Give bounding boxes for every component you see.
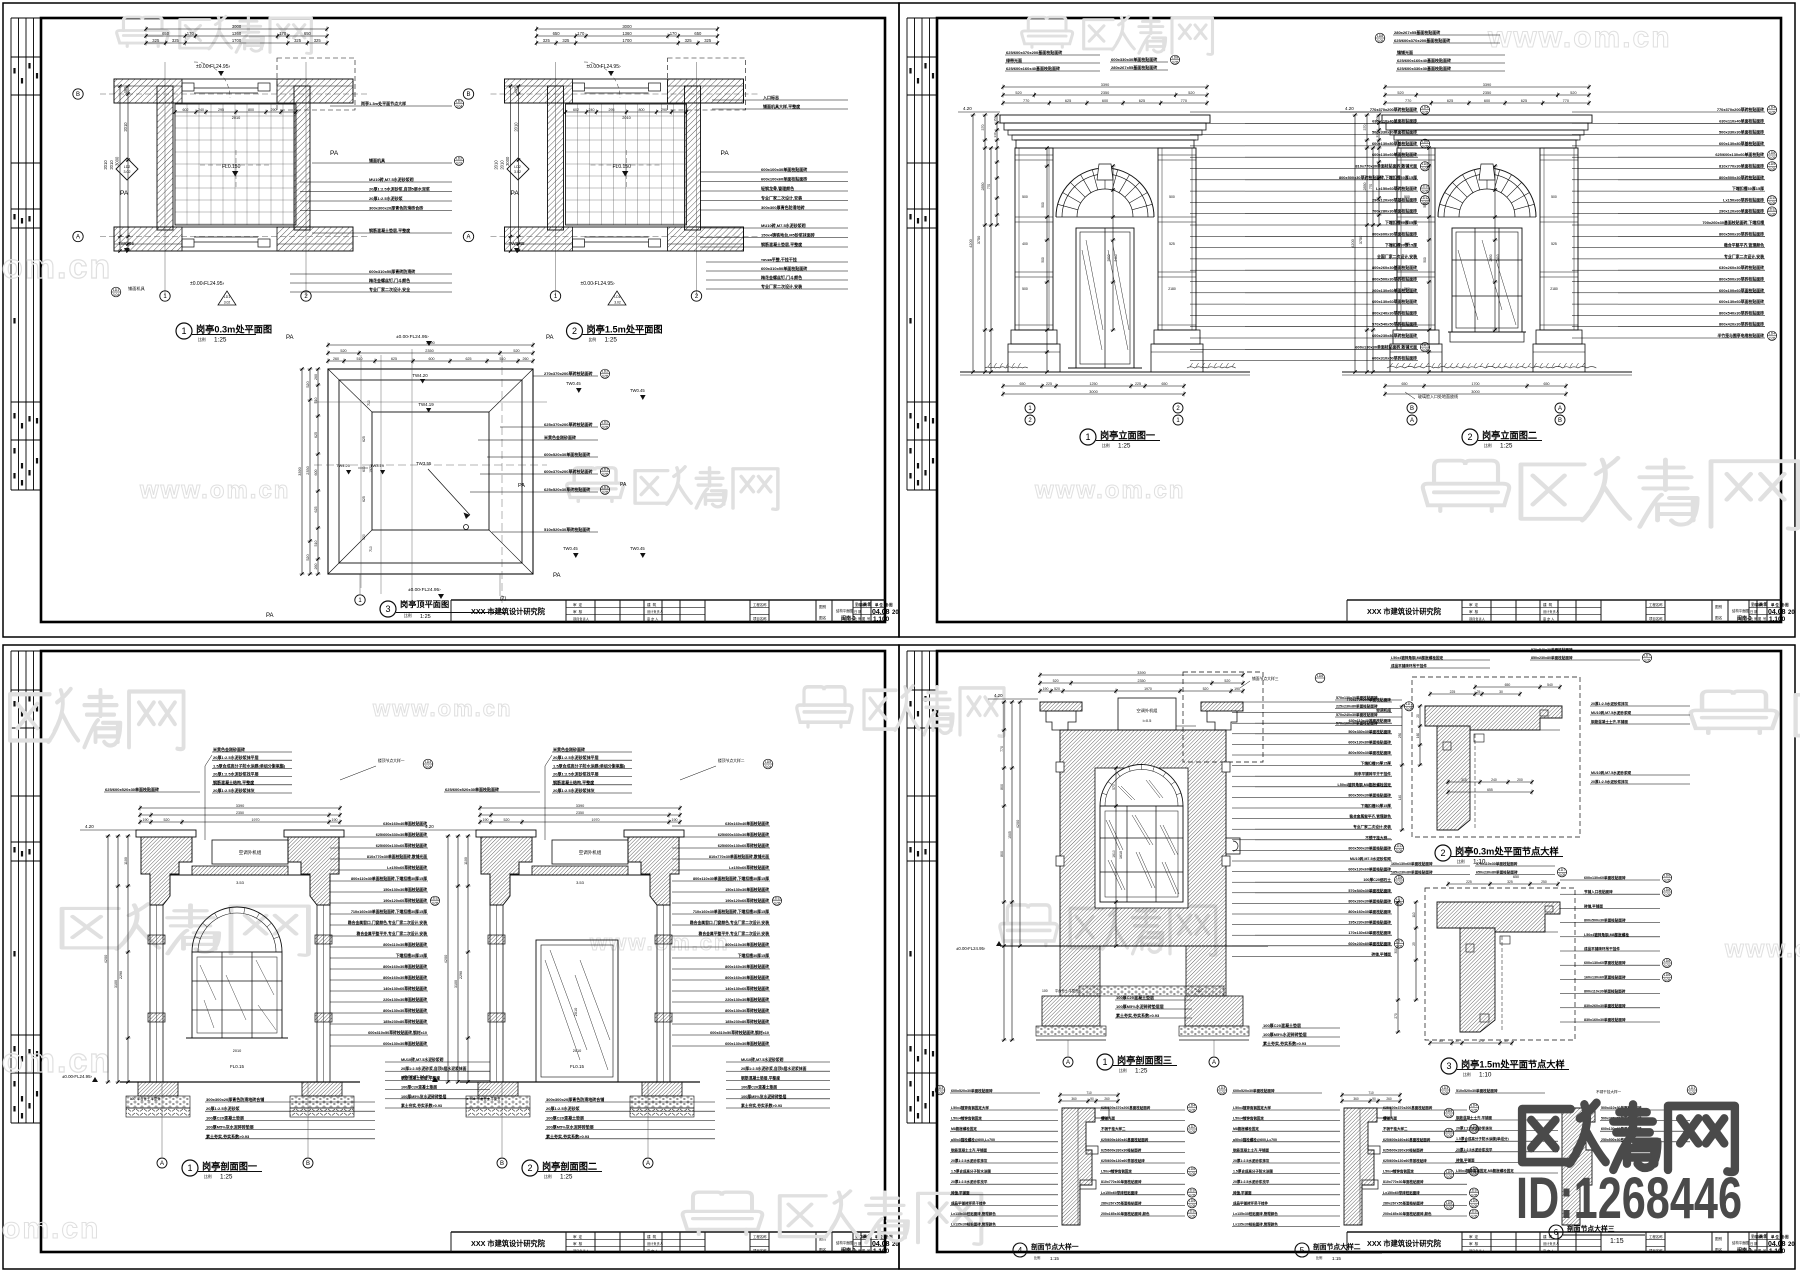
svg-text:04.08: 04.08 (872, 609, 890, 616)
svg-text:LD2: LD2 (456, 100, 462, 104)
svg-text:审 定: 审 定 (1469, 1234, 1479, 1239)
arch springline (1438, 216, 1536, 218)
axis line B (100, 93, 370, 95)
svg-text:600x310x50单面枝贴面砖: 600x310x50单面枝贴面砖 (761, 265, 807, 271)
svg-text:170: 170 (187, 31, 195, 36)
svg-text:710: 710 (367, 400, 371, 406)
svg-text:20厚1:2.5水泥砂浆: 20厚1:2.5水泥砂浆 (369, 195, 404, 201)
svg-text:190x120x60草砖枝贴面砖: 190x120x60草砖枝贴面砖 (725, 898, 769, 903)
svg-text:3.02: 3.02 (124, 170, 131, 174)
svg-text:岗亭平铺砖平齐干挂件: 岗亭平铺砖平齐干挂件 (1354, 771, 1391, 776)
svg-text:520: 520 (1203, 687, 1209, 691)
svg-text:空调外机组: 空调外机组 (239, 849, 262, 856)
svg-text:项目名称: 项目名称 (753, 1248, 767, 1253)
svg-text:20厚1:2.5水泥砂浆找平: 20厚1:2.5水泥砂浆找平 (1233, 1179, 1270, 1184)
svg-text:700x280x30单面枝贴面砖: 700x280x30单面枝贴面砖 (1372, 209, 1417, 214)
svg-text:TW0.45: TW0.45 (509, 241, 526, 246)
svg-text:砖缝,平铺面: 砖缝,平铺面 (951, 1190, 970, 1195)
svg-text:Lx150x60草砖枝贴面砖: Lx150x60草砖枝贴面砖 (387, 865, 427, 870)
svg-text:1: 1 (1102, 1057, 1107, 1067)
svg-text:om.cn: om.cn (2, 1042, 112, 1080)
section2 right notes lower (726, 1057, 830, 1108)
svg-text:B: B (500, 1161, 504, 1167)
svg-text:LD2: LD2 (1189, 1125, 1195, 1129)
svg-text:800x500x30单面枝贴面砖: 800x500x30单面枝贴面砖 (1348, 845, 1391, 850)
watermark sofa right mid (1423, 461, 1509, 511)
svg-text:260x130x60单面枝贴面砖: 260x130x60单面枝贴面砖 (1372, 288, 1417, 293)
door head line (585, 87, 649, 89)
svg-text:85: 85 (1439, 1039, 1443, 1043)
roof top dim chain 3 (326, 343, 534, 348)
svg-text:LD3: LD3 (1442, 1086, 1448, 1090)
svg-text:审 定: 审 定 (573, 1234, 583, 1239)
svg-text:100 平台夯土,平整夯: 100 平台夯土,平整夯 (470, 1096, 501, 1101)
wd right notes (1382, 1103, 1479, 1218)
svg-text:3000: 3000 (115, 156, 120, 166)
axis bubble section (157, 1158, 167, 1168)
pilaster base cap (1536, 330, 1582, 344)
wd3 left refcircles (1444, 1108, 1454, 1118)
svg-text:节铺入口枝贴面砖: 节铺入口枝贴面砖 (1584, 889, 1613, 894)
svg-text:190: 190 (332, 818, 338, 822)
arch fanlight (1438, 168, 1536, 217)
svg-text:2010: 2010 (574, 1008, 578, 1016)
svg-text:2010: 2010 (622, 116, 630, 120)
gravel base right (290, 1096, 354, 1108)
svg-text:审 核: 审 核 (573, 1241, 583, 1246)
svg-text:M8膨胀螺栓固定: M8膨胀螺栓固定 (1233, 1126, 1259, 1131)
svg-text:下端扣槽30厚15厚: 下端扣槽30厚15厚 (1361, 761, 1392, 766)
wall left pier hatched (157, 86, 173, 230)
svg-text:600x310x50草砖枝贴面砖,钢材x10: 600x310x50草砖枝贴面砖,钢材x10 (710, 1030, 769, 1035)
svg-text:3.05: 3.05 (602, 473, 609, 477)
leader from top notes (545, 755, 552, 766)
detail2 left notes (1335, 695, 1414, 726)
sec3 below-ground hatch left (1060, 946, 1100, 996)
section top dim 1b (478, 813, 681, 818)
detail2 inner fixtures (1474, 734, 1484, 742)
wall band bottom with hatch (114, 227, 353, 251)
svg-text:LD2: LD2 (514, 165, 521, 169)
svg-text:2010: 2010 (573, 1049, 581, 1053)
arch springline (1056, 216, 1154, 218)
figure label 岗亭立面图一 (1080, 429, 1096, 445)
svg-text:比例: 比例 (204, 1174, 212, 1179)
svg-text:LD2: LD2 (602, 421, 608, 425)
svg-text:325: 325 (685, 38, 693, 43)
svg-text:600x130x30单面枝贴面砖,散铺光面: 600x130x30单面枝贴面砖,散铺光面 (1355, 344, 1417, 349)
dashed detail boundary (668, 58, 746, 110)
svg-text:4.20: 4.20 (1345, 106, 1354, 111)
svg-text:稳合金属平整平齐,专业厂家二次设计,安装: 稳合金属平整平齐,专业厂家二次设计,安装 (357, 931, 428, 936)
watermark sofa+logo sheet2 top (1022, 17, 1073, 47)
svg-text:LD2: LD2 (602, 370, 608, 374)
svg-text:520: 520 (164, 818, 170, 822)
svg-text:A: A (646, 1161, 650, 1167)
svg-text:比例: 比例 (1463, 1072, 1471, 1077)
svg-text:800: 800 (639, 108, 645, 112)
svg-text:150: 150 (993, 116, 997, 121)
svg-text:LD1: LD1 (224, 295, 230, 299)
svg-text:4200: 4200 (444, 955, 448, 963)
svg-text:800x500x30单面枝贴面砖: 800x500x30单面枝贴面砖 (1348, 750, 1391, 755)
section left dims inner (466, 834, 471, 1083)
roof left dim chain 2 (308, 367, 313, 575)
svg-text:25: 25 (1412, 942, 1416, 946)
svg-text:图名: 图名 (1715, 615, 1723, 620)
svg-text:成品平铺砖环吊干挂件: 成品平铺砖环吊干挂件 (951, 1200, 986, 1205)
svg-text:3.05: 3.05 (1769, 156, 1776, 160)
svg-text:1970: 1970 (252, 818, 260, 822)
svg-text:20厚1:2.5水泥砂浆抹灰: 20厚1:2.5水泥砂浆抹灰 (1233, 1158, 1270, 1163)
svg-text:185x230x80草砖枝贴面砖: 185x230x80草砖枝贴面砖 (383, 1019, 427, 1024)
svg-text:岗亭0.3m处平面节点大样: 岗亭0.3m处平面节点大样 (1455, 846, 1559, 857)
svg-text:240: 240 (589, 108, 595, 112)
svg-text:绿带光面: 绿带光面 (1006, 57, 1022, 63)
svg-text:审 定: 审 定 (855, 602, 863, 607)
AC unit box 空调外机组 (212, 840, 288, 864)
sec3 AC unit (1118, 698, 1176, 730)
svg-text:240: 240 (198, 108, 204, 112)
svg-text:800x160x30单面枝贴面砖: 800x160x30单面枝贴面砖 (1348, 909, 1391, 914)
svg-text:1:15: 1:15 (1610, 1238, 1624, 1245)
svg-text:镶铺光面: 镶铺光面 (1397, 49, 1413, 55)
svg-text:设计负责人: 设计负责人 (647, 609, 664, 614)
svg-text:1:25: 1:25 (214, 336, 227, 343)
svg-text:LD6: LD6 (1664, 874, 1670, 878)
leader notes fig2 lower (706, 256, 848, 289)
leader notes fig2 upper (700, 166, 848, 210)
svg-text:图 号: 图 号 (1758, 1248, 1766, 1253)
svg-text:325: 325 (704, 38, 712, 43)
axis bubble A (73, 231, 83, 241)
svg-text:100厚M5%水泥碎砖垫层: 100厚M5%水泥碎砖垫层 (1263, 1031, 1307, 1037)
sheet3 revision strip (11, 651, 41, 1123)
svg-text:PA: PA (286, 335, 294, 341)
section left dims mid (456, 834, 461, 1083)
svg-text:300x300x20厚青色防滑地砖合铺: 300x300x20厚青色防滑地砖合铺 (546, 1096, 604, 1102)
svg-text:Lx135x30枝贴面砖,管理颜色: Lx135x30枝贴面砖,管理颜色 (951, 1211, 996, 1216)
sec3 glass leaf marks (1106, 780, 1179, 894)
roof top dim chain 2 (326, 351, 534, 356)
svg-text:4: 4 (1018, 1246, 1023, 1255)
sheet3 border frame (3, 645, 899, 1269)
svg-text:2010: 2010 (494, 160, 499, 170)
svg-text:625: 625 (362, 436, 366, 442)
svg-text:3.05: 3.05 (602, 491, 609, 495)
svg-text:600x230x80草砖枝贴面砖: 600x230x80草砖枝贴面砖 (1372, 333, 1417, 338)
svg-text:2850: 2850 (1363, 183, 1367, 191)
detail2 bottom dims (1446, 780, 1533, 785)
interior dim chain 2 (1493, 164, 1498, 331)
watermark sofa+logo sheet4 mid (1000, 905, 1058, 946)
svg-text:A: A (76, 235, 80, 241)
svg-text:160: 160 (1416, 733, 1420, 739)
svg-text:1:25: 1:25 (560, 1173, 573, 1180)
svg-text:800x500x30单面枝贴面砖: 800x500x30单面枝贴面砖 (1584, 918, 1626, 923)
svg-text:LD1: LD1 (1689, 1086, 1695, 1090)
svg-text:专业厂家二次设计,安装: 专业厂家二次设计,安装 (1353, 824, 1391, 829)
svg-text:20厚1:2.5水泥砂浆,自顶5层水泥浆: 20厚1:2.5水泥砂浆,自顶5层水泥浆 (369, 186, 431, 192)
svg-text:325: 325 (1507, 880, 1513, 884)
svg-text:MU10砖,M7.5水泥砂浆砌: MU10砖,M7.5水泥砂浆砌 (1591, 770, 1632, 775)
svg-text:入口标志: 入口标志 (763, 94, 779, 100)
svg-text:600x130x80草基枝贴面砖: 600x130x80草基枝贴面砖 (1719, 141, 1764, 146)
svg-text:625/600x370x200基面枝贴面砖: 625/600x370x200基面枝贴面砖 (1394, 37, 1450, 43)
detail marker pyramid LD1/3.02 (218, 291, 236, 305)
roof left dim chain (316, 367, 321, 575)
upper notes elev2 (1393, 29, 1500, 43)
svg-text:185x230x80草砖枝贴面砖: 185x230x80草砖枝贴面砖 (725, 1019, 769, 1024)
svg-text:比例: 比例 (1484, 443, 1492, 448)
gravel base left (126, 1096, 190, 1108)
svg-text:铺面节点大样三: 铺面节点大样三 (1252, 676, 1279, 681)
dimension chain top 650-170-1360 (144, 34, 328, 39)
elevation top dim chain 2 (1383, 93, 1590, 98)
svg-text:100厚M5%灰水泥碎砖垫层: 100厚M5%灰水泥碎砖垫层 (741, 1094, 787, 1099)
svg-text:600x100x60草面枝贴面砖: 600x100x60草面枝贴面砖 (1719, 288, 1764, 293)
svg-text:铺面机具大样,平整度: 铺面机具大样,平整度 (763, 103, 801, 109)
svg-text:602: 602 (573, 108, 579, 112)
svg-text:2.05: 2.05 (1664, 893, 1671, 897)
svg-text:成品平铺砖环吊干挂件: 成品平铺砖环吊干挂件 (1584, 946, 1620, 951)
svg-text:100厚M5%水泥碎砖垫层层: 100厚M5%水泥碎砖垫层层 (1116, 1003, 1164, 1009)
svg-text:3.05: 3.05 (774, 902, 781, 906)
svg-text:770: 770 (1405, 99, 1411, 103)
svg-text:±0.00‹FL24.95›: ±0.00‹FL24.95› (396, 334, 429, 340)
svg-text:325: 325 (294, 38, 302, 43)
svg-text:LD3: LD3 (937, 1086, 943, 1090)
svg-text:MU10砖,M7.5水泥砂浆砌: MU10砖,M7.5水泥砂浆砌 (761, 222, 806, 228)
svg-text:LD12: LD12 (1768, 207, 1776, 211)
section arched window (192, 907, 282, 952)
svg-text:2010: 2010 (513, 122, 518, 132)
door head line (194, 87, 258, 89)
svg-text:www.o: www.o (1724, 936, 1800, 963)
roof note 7 (492, 526, 598, 532)
watermark sofa+logo center row3 (797, 687, 852, 727)
svg-text:LD5: LD5 (1769, 162, 1775, 166)
svg-text:20厚1:2.5水泥砂浆抹灰: 20厚1:2.5水泥砂浆抹灰 (213, 787, 255, 793)
svg-text:不锈干挂大样—: 不锈干挂大样— (1365, 835, 1391, 840)
sheet4 title block (1347, 1232, 1781, 1252)
svg-text:100厚C20混凝土垫层: 100厚C20混凝土垫层 (1116, 994, 1154, 1000)
svg-text:1:15: 1:15 (1332, 1256, 1341, 1261)
svg-text:600x130x60草面枝贴面砖: 600x130x60草面枝贴面砖 (1719, 299, 1764, 304)
svg-text:600x130x30单面枝贴面砖: 600x130x30单面枝贴面砖 (383, 1041, 427, 1046)
roof top dim chain 1 (326, 359, 534, 364)
axis bubble 1 (550, 291, 560, 301)
svg-text:20厚1:2.5水泥砂浆找平层: 20厚1:2.5水泥砂浆找平层 (213, 771, 259, 777)
figure label section3 (1097, 1054, 1113, 1070)
svg-text:810x770x30单面枝贴面砖,散铺光面: 810x770x30单面枝贴面砖,散铺光面 (1355, 164, 1417, 169)
window (1452, 228, 1522, 332)
svg-text:3390: 3390 (236, 804, 244, 808)
svg-text:600x310x50草砖枝贴面砖: 600x310x50草砖枝贴面砖 (1372, 356, 1417, 361)
svg-text:600x130x80单面枝贴面砖: 600x130x80单面枝贴面砖 (1348, 739, 1391, 744)
svg-text:2010: 2010 (232, 116, 240, 120)
svg-text:a50x3锚栓螺栓@600,L=700: a50x3锚栓螺栓@600,L=700 (1233, 1137, 1277, 1142)
svg-text:225: 225 (1450, 690, 1456, 694)
svg-text:PA: PA (511, 190, 520, 197)
interior dim row (173, 110, 297, 115)
sec3 window mullion v1 (1126, 806, 1128, 902)
svg-text:600x130x30单面枝贴面砖: 600x130x30单面枝贴面砖 (725, 1041, 769, 1046)
floor tile grid (566, 104, 687, 225)
roof left dim chain 3 (300, 367, 305, 575)
svg-text:比例: 比例 (589, 337, 597, 342)
svg-text:砖缝,平铺面: 砖缝,平铺面 (1456, 1157, 1475, 1162)
svg-text:比例: 比例 (1119, 1068, 1127, 1073)
svg-text:图名: 图名 (1715, 1247, 1723, 1252)
section top dim 1 (138, 806, 341, 811)
svg-text:360: 360 (1071, 1097, 1077, 1101)
svg-text:3100: 3100 (454, 980, 458, 988)
svg-text:L50x4镀锌角钢固定: L50x4镀锌角钢固定 (951, 1116, 982, 1121)
svg-text:3.05: 3.05 (1406, 707, 1413, 711)
svg-text:项目名称: 项目名称 (1649, 616, 1663, 621)
sheet1 title block (451, 600, 885, 622)
wall jog right (649, 83, 661, 91)
svg-text:LD10: LD10 (1768, 196, 1776, 200)
svg-text:比例: 比例 (404, 613, 412, 618)
svg-text:审 定: 审 定 (1751, 1234, 1759, 1239)
wd top note (950, 1088, 1040, 1093)
svg-text:Lx150x60草砖枝贴面砖: Lx150x60草砖枝贴面砖 (1376, 186, 1417, 191)
svg-text:600: 600 (314, 470, 318, 476)
svg-text:岗亭0.3m处平面图: 岗亭0.3m处平面图 (196, 324, 272, 335)
svg-text:2290: 2290 (119, 971, 123, 979)
svg-text:LD3: LD3 (1219, 1086, 1225, 1090)
svg-text:190: 190 (1043, 687, 1049, 691)
svg-text:3.05: 3.05 (1664, 964, 1671, 968)
svg-text:2010: 2010 (109, 160, 114, 170)
upper notes elev1 (1005, 49, 1100, 71)
svg-text:190x120x60草砖枝贴面砖: 190x120x60草砖枝贴面砖 (383, 898, 427, 903)
svg-text:315: 315 (1461, 778, 1467, 782)
svg-text:图别: 图别 (1715, 604, 1723, 609)
svg-text:楼顶节点大样二: 楼顶节点大样二 (718, 758, 745, 763)
detail2 top dims (1428, 692, 1521, 697)
svg-text:800x160x30单面枝贴面砖: 800x160x30单面枝贴面砖 (383, 975, 427, 980)
svg-text:单 位 鉴:图: 单 位 鉴:图 (1771, 602, 1789, 607)
svg-text:比例: 比例 (1316, 1255, 1322, 1260)
svg-text:TW0.45: TW0.45 (566, 381, 581, 386)
svg-text:655: 655 (1487, 788, 1493, 792)
svg-text:比例: 比例 (1034, 1255, 1040, 1260)
axis line 2 (696, 62, 698, 296)
svg-text:1970: 1970 (369, 465, 373, 473)
svg-text:B: B (76, 92, 80, 98)
svg-text:280x267x55基面枝贴面砖: 280x267x55基面枝贴面砖 (1394, 29, 1440, 35)
svg-text:650: 650 (304, 31, 312, 36)
footing left hatched (138, 1082, 178, 1096)
view marker diamond LD2/3.02 (116, 158, 138, 180)
pilaster base cap (1393, 330, 1439, 344)
svg-text:800x130x30草砖枝贴面砖: 800x130x30草砖枝贴面砖 (383, 1008, 427, 1013)
svg-text:625/600x160x40基面枝贴面砖: 625/600x160x40基面枝贴面砖 (1397, 57, 1451, 63)
section top notes (552, 746, 632, 793)
svg-text:525: 525 (1169, 242, 1175, 246)
dimension chain left 3000 (508, 84, 513, 252)
svg-text:Lx135x30枝贴面砖,管理颜色: Lx135x30枝贴面砖,管理颜色 (1233, 1211, 1278, 1216)
svg-text:600x100x60单面枝贴面砖: 600x100x60单面枝贴面砖 (761, 176, 807, 182)
watermark logo right mid (1521, 458, 1798, 529)
cornice entablature (1000, 115, 1210, 123)
dimension chain left (516, 84, 521, 252)
axis bubbles (1025, 403, 1035, 413)
svg-text:下端扣槽30厚15厚: 下端扣槽30厚15厚 (396, 953, 427, 958)
svg-text:3.05: 3.05 (1471, 1215, 1478, 1219)
svg-text:A: A (1066, 1060, 1070, 1066)
detail2 top notes (1390, 655, 1490, 668)
section cornice cap right (624, 830, 684, 837)
wd3 top note (1455, 1088, 1545, 1093)
svg-text:LD12: LD12 (431, 897, 439, 901)
svg-text:200: 200 (1517, 778, 1523, 782)
svg-text:625: 625 (1521, 99, 1527, 103)
svg-text:TW4.20: TW4.20 (336, 463, 351, 468)
sec3 top dim row1 (1038, 673, 1244, 678)
figure label 岗亭1.5m处平面图 (567, 323, 583, 339)
svg-text:1.100: 1.100 (873, 1248, 890, 1255)
wd left notes (1232, 1105, 1340, 1227)
svg-text:梅花金螺丝钉,门斗颜色: 梅花金螺丝钉,门斗颜色 (761, 274, 802, 280)
svg-text:LD7: LD7 (1422, 343, 1428, 347)
axis bubble B (463, 89, 473, 99)
svg-text:3.05: 3.05 (1377, 39, 1384, 43)
wall jog right (258, 83, 270, 91)
svg-text:100厚M5%灰水泥碎砖垫层: 100厚M5%灰水泥碎砖垫层 (546, 1124, 594, 1130)
svg-text:625: 625 (1065, 99, 1071, 103)
svg-text:±0.00‹FL24.95›: ±0.00‹FL24.95› (196, 64, 230, 70)
svg-text:2350: 2350 (1101, 91, 1109, 95)
svg-text:梅花金螺丝钉,门斗颜色: 梅花金螺丝钉,门斗颜色 (369, 277, 410, 283)
svg-text:结构平面图: 结构平面图 (1732, 1240, 1750, 1245)
svg-text:20: 20 (892, 610, 899, 616)
pilaster pedestal (1390, 344, 1442, 372)
svg-text:钢筋混凝土土齐,平铺面: 钢筋混凝土土齐,平铺面 (1456, 1115, 1492, 1120)
svg-text:闽南-0: 闽南-0 (1737, 1247, 1752, 1254)
svg-text:1: 1 (1085, 432, 1090, 442)
svg-text:190: 190 (672, 818, 678, 822)
svg-text:250: 250 (1541, 880, 1547, 884)
pilaster base cap (1154, 330, 1200, 344)
svg-text:审 定: 审 定 (1751, 602, 1759, 607)
svg-text:830x260x30单面枝贴面砖: 830x260x30单面枝贴面砖 (1584, 1003, 1626, 1008)
svg-text:素土夯实,夯实系数>0.93: 素土夯实,夯实系数>0.93 (1262, 1040, 1307, 1046)
upper notes elev1 right (1110, 55, 1180, 70)
axis line A (491, 236, 761, 238)
svg-text:LD7: LD7 (1406, 702, 1412, 706)
svg-text:3.05: 3.05 (1396, 944, 1403, 948)
svg-text:500: 500 (1022, 195, 1028, 199)
svg-text:钢筋混凝土结构,平整度: 钢筋混凝土结构,平整度 (213, 779, 255, 785)
axis bubble 2 (691, 291, 701, 301)
svg-text:3750: 3750 (977, 236, 981, 244)
view marker diamond LD2/3.02 (507, 158, 529, 180)
sec3 bottom notes (1115, 994, 1192, 1018)
svg-text:1:25: 1:25 (220, 1173, 233, 1180)
svg-text:325: 325 (152, 38, 160, 43)
elevation top dim chain 3 (1001, 101, 1208, 106)
axis bubble 2 (301, 291, 311, 301)
svg-text:770: 770 (1023, 99, 1029, 103)
svg-text:3.02: 3.02 (614, 301, 621, 305)
svg-text:3.05: 3.05 (1396, 881, 1403, 885)
svg-text:270: 270 (1394, 1013, 1398, 1019)
svg-text:3.05: 3.05 (1422, 167, 1429, 171)
